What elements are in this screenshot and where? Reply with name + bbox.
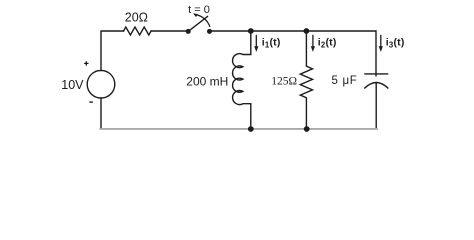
svg-text:5 μF: 5 μF xyxy=(331,75,357,87)
switch S1 left contact dot xyxy=(186,29,191,34)
wire bottom (return) xyxy=(100,128,377,130)
node junction dot bottom of L1 xyxy=(248,126,254,132)
svg-text:t = 0: t = 0 xyxy=(188,4,210,16)
svg-text:125Ω: 125Ω xyxy=(271,75,297,87)
resistor R1 xyxy=(124,27,152,35)
node junction dot bottom of R2 xyxy=(304,126,310,132)
svg-text:20Ω: 20Ω xyxy=(125,10,148,24)
node junction dot top of L1 xyxy=(248,28,254,34)
current arrow i2 xyxy=(312,36,314,48)
wire source bottom to bottom-left corner xyxy=(100,98,102,128)
node junction dot top of R2 xyxy=(304,28,310,34)
wire switch to capacitor branch (top) xyxy=(210,30,376,32)
V1 minus sign xyxy=(90,101,93,102)
current arrow i3 xyxy=(380,36,382,48)
capacitor C1 curved plate xyxy=(365,83,388,89)
wire resistor to switch xyxy=(151,30,188,32)
svg-text:10V: 10V xyxy=(61,78,84,92)
switch S1 arrowhead xyxy=(193,13,198,17)
wire top-left segment xyxy=(101,31,124,71)
switch S1 motion arc xyxy=(197,15,209,26)
svg-text:i2(t): i2(t) xyxy=(318,37,337,50)
svg-text:i1(t): i1(t) xyxy=(262,37,281,50)
resistor R2 xyxy=(300,31,312,128)
V1 plus sign xyxy=(84,61,88,65)
switch S1 blade xyxy=(188,17,207,32)
switch S1 right contact dot xyxy=(207,29,212,34)
inductor L1 xyxy=(233,31,251,128)
capacitor C1 top lead xyxy=(375,31,377,76)
svg-text:i3(t): i3(t) xyxy=(386,37,405,50)
voltage source V1 circle xyxy=(87,70,115,98)
svg-text:200 mH: 200 mH xyxy=(186,75,228,89)
current arrow i1 xyxy=(255,36,257,48)
capacitor C1 bottom lead xyxy=(375,83,377,128)
capacitor C1 flat plate xyxy=(365,73,388,75)
